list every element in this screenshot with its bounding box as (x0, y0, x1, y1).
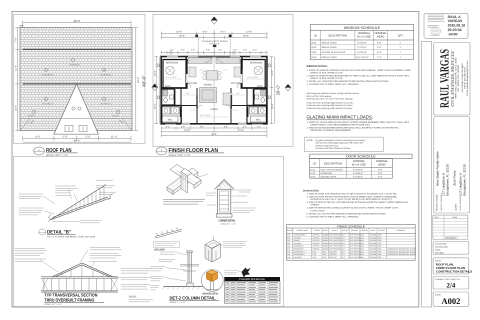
svg-text:SW7008: SW7008 (370, 245, 377, 248)
svg-text:ID: ID (314, 34, 317, 37)
svg-text:5'-0": 5'-0" (257, 125, 261, 128)
window tags (157, 51, 271, 98)
svg-text:PROJECT NAME:: PROJECT NAME: (435, 194, 438, 211)
svg-text:24'-0": 24'-0" (184, 129, 190, 132)
finish schedule rows (287, 236, 416, 259)
porch corner posts (195, 35, 198, 38)
svg-text:109: 109 (287, 256, 290, 259)
door arcs (186, 57, 242, 110)
svg-text:20'-0": 20'-0" (179, 35, 185, 38)
detail B rafter verticals (60, 186, 104, 217)
svg-text:2. WINDOW IN WINDBORNE DEBR: 2. WINDOW IN WINDBORNE DEBRIS REGIONS SH… (307, 127, 400, 130)
interior wall: right unit vertical (241, 57, 243, 88)
svg-text:WOOD: WOOD (323, 234, 329, 237)
ridge line lower (23, 83, 132, 85)
metal roof slope detail (155, 228, 182, 239)
svg-text:6'-0": 6'-0" (221, 31, 226, 34)
bath block left (162, 89, 174, 105)
engineer box (434, 43, 470, 116)
svg-text:GYP. PAINTED: GYP. PAINTED (329, 242, 341, 245)
svg-text:3'-6": 3'-6" (243, 48, 247, 51)
svg-text:BATH: BATH (257, 85, 263, 88)
egress paragraph (307, 92, 360, 110)
transversal annotations right (121, 269, 152, 290)
svg-text:CROWN: CROWN (361, 229, 368, 232)
svg-text:12'-0": 12'-0" (246, 31, 252, 34)
svg-text:GLAZING MIAMI IMPACT LOADS:: GLAZING MIAMI IMPACT LOADS: (307, 115, 373, 120)
svg-text:Georgetown, FL 32139: Georgetown, FL 32139 (462, 164, 466, 196)
svg-text:LVP/TILE: LVP/TILE (312, 242, 320, 245)
svg-text:DET-2 COLUMN DETAIL: DET-2 COLUMN DETAIL (170, 295, 216, 300)
svg-text:3'-0"x6'-8": 3'-0"x6'-8" (353, 168, 363, 171)
svg-text:108: 108 (287, 253, 290, 256)
svg-text:5'-0": 5'-0" (236, 92, 240, 95)
finish schedule header (287, 232, 416, 234)
section end X braces (41, 278, 48, 290)
window schedule header row (310, 39, 413, 41)
svg-text:11'-0": 11'-0" (111, 136, 117, 139)
DETAIL B roof slope drawing (51, 185, 110, 220)
window schedule box (310, 25, 413, 60)
svg-text:LVP/TILE: LVP/TILE (312, 245, 320, 248)
copy number box (433, 277, 469, 290)
svg-text:15'-0": 15'-0" (153, 103, 156, 109)
svg-text:11'-4" x 12'-6": 11'-4" x 12'-6" (165, 76, 177, 79)
svg-text:5'-0": 5'-0" (186, 92, 190, 95)
svg-text:6'-0": 6'-0" (203, 31, 208, 34)
left dim column (155, 57, 162, 124)
svg-text:IMPACT GLASS, WHITE COLOR.: IMPACT GLASS, WHITE COLOR. (311, 77, 344, 80)
svg-text:KITCHEN: KITCHEN (231, 82, 241, 85)
svg-text:METAL ROOF: METAL ROOF (154, 249, 165, 252)
svg-text:W x H SIZE: W x H SIZE (357, 36, 371, 39)
svg-text:CORNER DETAIL: CORNER DETAIL (219, 219, 236, 223)
orange column cap in bubble (207, 270, 218, 282)
svg-text:6'-8": 6'-8" (377, 46, 382, 49)
svg-text:SW7008: SW7008 (370, 256, 377, 259)
svg-text:WOOD: WOOD (323, 239, 329, 242)
svg-text:5'-0": 5'-0" (85, 136, 90, 139)
DETAIL B title marker (39, 229, 46, 235)
svg-text:4'-0": 4'-0" (170, 48, 174, 51)
svg-text:GYP. PAINTED: GYP. PAINTED (329, 239, 341, 242)
svg-text:R310 of FBC 2023 edition:: R310 of FBC 2023 edition: (307, 95, 333, 98)
svg-text:GYP. PAINTED: GYP. PAINTED (329, 234, 341, 237)
svg-text:3'-6": 3'-6" (233, 48, 237, 51)
svg-text:101: 101 (287, 234, 290, 237)
interior wall: left unit vertical (185, 57, 187, 88)
interior micro dims (163, 61, 265, 118)
svg-text:VARGAS: VARGAS (448, 19, 463, 23)
svg-text:WOOD: WOOD (323, 248, 329, 251)
laundry closets right bottom (258, 107, 266, 114)
svg-text:6'-0"x6'-8": 6'-0"x6'-8" (353, 175, 363, 178)
svg-text:SCALE: 1/2" = 1'-0": SCALE: 1/2" = 1'-0" (44, 303, 62, 306)
ceiling fan left bedroom (166, 66, 174, 74)
svg-text:EXTERIOR DOOR: FULLY LIGHT COL: EXTERIOR DOOR: FULLY LIGHT COLOR SELECT … (311, 198, 393, 201)
svg-text:STANDARD: STANDARD (320, 172, 332, 175)
svg-text:48'-0": 48'-0" (211, 133, 217, 136)
svg-text:TILE/GYP: TILE/GYP (329, 253, 337, 256)
glazing items (307, 121, 410, 132)
signature bold text (448, 15, 466, 37)
glazing note box (305, 137, 384, 152)
svg-text:WIC: WIC (168, 119, 173, 122)
corner detail leaders (233, 190, 257, 212)
svg-text:SW7008: SW7008 (370, 236, 377, 239)
truss internal verticals (62, 265, 103, 277)
DET-2 base (163, 286, 213, 288)
svg-text:CURRENT COPY SHEET No.: CURRENT COPY SHEET No. (435, 278, 461, 281)
svg-text:106: 106 (287, 248, 290, 251)
svg-text:A frame in left flaw, Tested i: A frame in left flaw, Tested in 05 flaw. (316, 147, 351, 150)
svg-text:SCALE: 3/16" = 1'-0": SCALE: 3/16" = 1'-0" (169, 154, 191, 157)
svg-text:A002: A002 (441, 296, 460, 306)
svg-text:WOOD: WOOD (323, 236, 329, 239)
svg-text:6'-0"x6'-8": 6'-0"x6'-8" (357, 51, 367, 54)
svg-text:7'-4": 7'-4" (14, 37, 17, 42)
svg-text:SINGLE HUNG: SINGLE HUNG (322, 41, 337, 44)
svg-text:20:23:04: 20:23:04 (448, 28, 462, 32)
bath block right (mirror) (254, 89, 266, 105)
section cut diamonds (152, 17, 291, 91)
svg-text:Defects must both force:: Defects must both force: (316, 144, 340, 147)
dining table (207, 71, 218, 81)
svg-text:Checked:: Checked: (435, 251, 444, 254)
sheet name box (433, 258, 469, 274)
covered entry porch outline (198, 37, 230, 56)
svg-text:RIDGE: RIDGE (112, 115, 119, 118)
svg-text:BEDROOM 1: BEDROOM 1 (294, 245, 304, 248)
transversal annotations top-right (90, 248, 122, 262)
svg-text:TILE/GYP: TILE/GYP (329, 250, 337, 253)
svg-text:1. SIZES OF WINDOW OPENINGS: 1. SIZES OF WINDOW OPENINGS SHOWN ON PLA… (307, 69, 412, 72)
svg-text:DINING: DINING (294, 239, 301, 242)
left dimension line (15, 28, 20, 131)
3d cube column top (205, 240, 221, 262)
svg-text:IMPACT GLASS, WHITE COLOR.: IMPACT GLASS, WHITE COLOR. (311, 71, 344, 74)
mini table annotation text (224, 271, 238, 275)
svg-text:ROOM: ROOM (287, 229, 293, 232)
top dim row 2 (161, 36, 267, 40)
svg-text:13'-0": 13'-0" (271, 70, 274, 76)
svg-text:8'-0": 8'-0" (342, 250, 346, 253)
svg-text:4'-0": 4'-0" (253, 48, 257, 51)
svg-text:SCALE 1/2" = 1'-0": SCALE 1/2" = 1'-0" (221, 222, 237, 225)
svg-text:Grids min clear opening width: Grids min clear opening width shall be 2… (307, 107, 353, 110)
svg-text:W-04: W-04 (311, 56, 317, 59)
bottom corner rooms heavy walls (162, 106, 182, 123)
svg-text:SW7008: SW7008 (370, 248, 377, 251)
svg-text:CEILING: CEILING (351, 229, 358, 232)
detail B bottom leader (52, 221, 80, 223)
svg-text:Grids min clear opening height: Grids min clear opening height shall be … (307, 101, 354, 104)
svg-text:COVERED ENTRY PORCH: COVERED ENTRY PORCH (202, 40, 228, 43)
finish schedule outer (287, 225, 416, 261)
svg-text:13'-0": 13'-0" (153, 70, 156, 76)
svg-text:6'-8": 6'-8" (377, 51, 382, 54)
svg-text:REVISIONS: REVISIONS (445, 236, 456, 239)
svg-text:LVP/TILE: LVP/TILE (312, 234, 320, 237)
svg-text:QTY: QTY (398, 34, 404, 37)
ridge line upper (23, 48, 132, 50)
svg-text:15'-0": 15'-0" (271, 103, 274, 109)
isometric note text (163, 200, 205, 205)
svg-text:(2) 3'-0"x5'-0": (2) 3'-0"x5'-0" (356, 56, 369, 59)
svg-text:CIVIL ENGINEER, MS,PE,CGC: CIVIL ENGINEER, MS,PE,CGC (450, 51, 455, 107)
titleblock narrow strip (422, 42, 432, 308)
svg-text:ID: ID (313, 162, 316, 165)
living furniture (223, 93, 232, 105)
svg-text:BATHROOM 2: BATHROOM 2 (294, 253, 305, 256)
svg-text:W x H SIZE: W x H SIZE (352, 164, 366, 167)
svg-text:SW7008: SW7008 (370, 242, 377, 245)
svg-text:6'-8": 6'-8" (378, 172, 383, 175)
svg-text:DOOR SCHEDULE: DOOR SCHEDULE (346, 155, 376, 159)
svg-text:WOOD: WOOD (323, 245, 329, 248)
svg-text:2/4: 2/4 (447, 283, 456, 290)
svg-text:SINGLE HUNG: SINGLE HUNG (322, 46, 337, 49)
svg-text:DESCRIPTION: DESCRIPTION (324, 162, 342, 165)
svg-text:6. CONTRACTOR TO FIELD VERI: 6. CONTRACTOR TO FIELD VERIFY ALL OPENIN… (307, 215, 360, 218)
transversal annotations top-left (15, 249, 47, 262)
svg-text:COORDINATE BASEBOARD COLOR W/: COORDINATE BASEBOARD COLOR W/ (387, 248, 419, 251)
triangle vents (65, 107, 87, 132)
svg-text:KITCHEN: KITCHEN (294, 236, 302, 239)
svg-text:Email: jpineda.designer@gmail.: Email: jpineda.designer@gmail.com (466, 60, 469, 95)
detail B break marks (48, 215, 51, 223)
svg-text:P.E.: 86875 CGC: 1528341: P.E.: 86875 CGC: 1528341 (457, 64, 460, 91)
svg-text:WINDOW NOTES:: WINDOW NOTES: (307, 65, 328, 68)
svg-text:4'-8": 4'-8" (181, 125, 185, 128)
svg-text:1'-0": 1'-0" (19, 24, 24, 27)
bottom dim rows (161, 126, 267, 129)
laundry closets left bottom (162, 107, 170, 114)
mini schedule black header (224, 277, 280, 281)
svg-text:All emergency windows espace c: All emergency windows espace comply with… (307, 92, 360, 95)
svg-text:OVERBUILT: OVERBUILT (42, 103, 54, 106)
svg-text:2025.08.19: 2025.08.19 (448, 24, 466, 28)
detail B annotations left (19, 194, 44, 215)
entry marker (213, 45, 216, 47)
svg-text:CLIPS GLASS.: CLIPS GLASS. (311, 209, 326, 212)
svg-text:5'-0": 5'-0" (166, 125, 170, 128)
svg-text:8'-0": 8'-0" (342, 248, 346, 251)
svg-text:107: 107 (287, 250, 290, 253)
svg-text:2'-0"x3'-0": 2'-0"x3'-0" (357, 46, 367, 49)
svg-text:7'-4": 7'-4" (377, 56, 382, 59)
window schedule rows (310, 45, 413, 55)
svg-text:CLG HT: CLG HT (342, 229, 348, 232)
svg-text:D-02: D-02 (311, 172, 317, 175)
svg-text:Opening area of 5.7 sf / 820 s: Opening area of 5.7 sf / 820 sf net clea… (307, 98, 354, 101)
svg-text:6'-8": 6'-8" (377, 41, 382, 44)
svg-text:12'-0": 12'-0" (176, 31, 182, 34)
detail bubble circle (201, 270, 223, 292)
svg-text:New Single Family Home: New Single Family Home (435, 151, 439, 186)
svg-text:COORDINATE BASEBOARD COLOR W/: COORDINATE BASEBOARD COLOR W/ (387, 253, 419, 256)
svg-text:-04'00': -04'00' (448, 32, 459, 36)
svg-text:GREATS.: GREATS. (311, 204, 321, 207)
svg-text:8'-0": 8'-0" (342, 245, 346, 248)
window openings bottom wall (165, 123, 263, 125)
svg-text:ANCHOR DETAIL: ANCHOR DETAIL (202, 293, 218, 296)
room labels (165, 62, 263, 122)
plan outer walls (161, 57, 267, 124)
svg-text:Grids min clear opening width: Grids min clear opening width shall be 2… (307, 104, 353, 107)
svg-text:28'-0": 28'-0" (276, 84, 281, 95)
svg-text:LVP/TILE: LVP/TILE (312, 239, 320, 242)
svg-text:2. SIZES OF WINDOW MAY BE A: 2. SIZES OF WINDOW MAY BE ADJUSTED BY FI… (307, 74, 411, 77)
svg-text:ROOM NAME: ROOM NAME (297, 229, 308, 232)
svg-text:OVERBUILT: OVERBUILT (100, 103, 112, 106)
project labels (435, 193, 462, 211)
svg-text:Jose Perey: Jose Perey (452, 170, 456, 186)
interior wall: right mid horizontal (241, 87, 267, 89)
svg-text:THRU OVERBUILT FRAMING: THRU OVERBUILT FRAMING (44, 297, 94, 302)
svg-text:DOOR NOTES:: DOOR NOTES: (303, 190, 319, 193)
roof gable triangle (54, 84, 99, 134)
roof plan region box (14, 14, 145, 143)
svg-text:PAINT: PAINT (371, 229, 376, 232)
svg-text:with and has 100% glass glazin: with and has 100% glass glazing of TBC A… (316, 142, 364, 145)
svg-text:KITCHEN: KITCHEN (187, 82, 197, 85)
svg-text:5. INSTALL ALL DOORS PER MA: 5. INSTALL ALL DOORS PER MANUFACTURER IN… (307, 212, 387, 215)
svg-text:3'-6": 3'-6" (191, 48, 195, 51)
svg-text:8'-4": 8'-4" (200, 125, 204, 128)
sheet number box (433, 292, 469, 306)
svg-text:5'-0": 5'-0" (62, 136, 67, 139)
detail B annotations right (96, 180, 116, 194)
svg-text:1. VERTICAL GLASS AREA IN B: 1. VERTICAL GLASS AREA IN BUILDINGS LOCA… (307, 121, 410, 124)
svg-text:LIVING: LIVING (210, 108, 218, 111)
project values (italic) (435, 151, 466, 196)
transversal section truss (52, 263, 113, 277)
svg-text:8'-0": 8'-0" (342, 256, 346, 259)
kitchen counters (188, 58, 212, 64)
signature box (424, 13, 468, 38)
eave line (20, 118, 132, 120)
roof plan title marker (34, 147, 45, 155)
window openings top wall (167, 55, 261, 57)
svg-text:TILE/GYP: TILE/GYP (329, 256, 337, 259)
svg-text:W-03: W-03 (311, 51, 317, 54)
revision table (433, 215, 468, 239)
svg-text:4. SIZE OF DESIGN RECLOSING: 4. SIZE OF DESIGN RECLOSING ALLRIGHT GLA… (307, 207, 400, 210)
section base plates (41, 276, 118, 278)
svg-text:SLIDING GLASS DOOR: SLIDING GLASS DOOR (322, 51, 346, 54)
svg-text:LAUNDRY: LAUNDRY (294, 256, 303, 259)
svg-text:BATHROOM 1: BATHROOM 1 (294, 250, 305, 253)
svg-text:RESISTANT COVERING REQUIREMENT: RESISTANT COVERING REQUIREMENT. (311, 129, 352, 132)
svg-text:An glass intended to resist to: An glass intended to resist to smashed m… (316, 139, 366, 142)
svg-text:SINGLE HUNG: SINGLE HUNG (322, 56, 337, 59)
svg-text:RAUL A: RAUL A (448, 15, 462, 19)
svg-text:Job Number:: Job Number: (435, 243, 447, 246)
svg-text:CLIENT ADDRESS:: CLIENT ADDRESS: (459, 195, 462, 211)
svg-text:DOORS: DOORS (379, 229, 386, 232)
svg-text:Georgetown, FL 32139: Georgetown, FL 32139 (445, 164, 449, 196)
svg-text:OVERBUILT: OVERBUILT (42, 74, 54, 77)
svg-text:4'-8": 4'-8" (243, 125, 247, 128)
svg-text:FINISH SCHEDULE: FINISH SCHEDULE (337, 224, 365, 228)
hall walls (196, 88, 198, 124)
svg-text:SHEAR IMPACT LOAD REQUIREMENTS: SHEAR IMPACT LOAD REQUIREMENTS PER FIGUR… (311, 124, 372, 127)
svg-text:3'-6": 3'-6" (181, 48, 185, 51)
svg-text:3'-8": 3'-8" (218, 48, 222, 51)
svg-text:6'-8": 6'-8" (378, 168, 383, 171)
svg-text:11'-4" x 12'-6": 11'-4" x 12'-6" (247, 76, 259, 79)
svg-text:D-01: D-01 (311, 168, 317, 171)
svg-text:SW7008: SW7008 (370, 250, 377, 253)
svg-text:SW7008: SW7008 (370, 253, 377, 256)
entry center line (213, 30, 215, 57)
ceiling fan right bedroom (254, 66, 262, 74)
floor plan title marker (156, 147, 167, 155)
metal roof note box (154, 241, 180, 247)
svg-text:3'-8": 3'-8" (206, 48, 210, 51)
svg-text:WINDOW SCHEDULE: WINDOW SCHEDULE (344, 26, 381, 30)
north/3d symbol (242, 268, 251, 278)
bottom dimension line 1 (23, 136, 131, 141)
svg-text:LVP/TILE: LVP/TILE (312, 248, 320, 251)
svg-text:FLOOR: FLOOR (314, 229, 321, 232)
svg-text:OVERBUILT: OVERBUILT (69, 64, 81, 67)
detail B top chord hatch band (53, 199, 109, 219)
svg-text:48'-0": 48'-0" (74, 140, 81, 143)
door schedule title bar (310, 154, 412, 159)
svg-text:Drawing Date:: Drawing Date: (435, 246, 449, 249)
svg-text:BEDROOM: BEDROOM (250, 62, 262, 65)
bedroom heavy wall right (241, 60, 265, 89)
svg-text:GYP. PAINTED: GYP. PAINTED (329, 236, 341, 239)
svg-text:RIDGE: RIDGE (28, 115, 35, 118)
svg-text:8'-0": 8'-0" (342, 239, 346, 242)
DET-2 column elevation (188, 252, 191, 286)
svg-text:15'-4": 15'-4" (14, 105, 17, 111)
svg-text:BEDROOM 2: BEDROOM 2 (294, 248, 304, 251)
svg-text:3. SIZE OF DESIGN TIN FULL: 3. SIZE OF DESIGN TIN FULL LITE SMOKE AN… (307, 201, 409, 204)
window schedule title bar (310, 29, 413, 31)
svg-text:8'-0": 8'-0" (342, 236, 346, 239)
svg-text:FULL LITE EXTERIOR: FULL LITE EXTERIOR (320, 168, 343, 171)
svg-text:34'-0": 34'-0" (137, 77, 140, 83)
detail B annotations top (55, 186, 78, 196)
svg-text:REMARKS: REMARKS (397, 229, 406, 232)
svg-text:11'-4": 11'-4" (14, 65, 17, 71)
svg-text:103: 103 (287, 239, 290, 242)
svg-text:48'-0": 48'-0" (73, 19, 80, 23)
interior wall poche chunks (161, 58, 267, 118)
DET-2 annotations left (151, 252, 178, 290)
svg-text:WOOD: WOOD (323, 242, 329, 245)
svg-text:CONSTRUCTION DETAILS: CONSTRUCTION DETAILS (436, 269, 472, 273)
signature seal (431, 27, 441, 35)
window notes lines (307, 69, 412, 86)
section studs (44, 278, 112, 290)
svg-text:Scale:: Scale: (435, 249, 441, 252)
svg-text:BEDROOM: BEDROOM (166, 62, 178, 65)
top dim row 1 (161, 32, 267, 36)
svg-text:D-03: D-03 (311, 175, 317, 178)
svg-text:SLIDING DOOR: SLIDING DOOR (320, 175, 336, 178)
svg-text:HEAD: HEAD (378, 164, 386, 167)
svg-text:20'-0": 20'-0" (243, 35, 249, 38)
sheet outer frame (12, 12, 419, 308)
svg-text:1/2" = 1'-0" ROOF OVERBUILT: 1/2" = 1'-0" ROOF OVERBUILT CONT. SECTIO… (47, 236, 95, 239)
svg-text:SW7008: SW7008 (370, 239, 377, 242)
svg-text:2. SIZE OF DOOR FRONTS PROF: 2. SIZE OF DOOR FRONTS PROFILE MOLD INSU… (307, 196, 398, 199)
